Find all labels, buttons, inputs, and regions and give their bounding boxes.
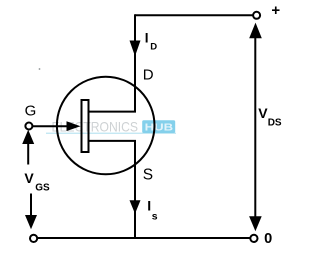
stray dot xyxy=(39,68,41,70)
svg-text:I: I xyxy=(147,198,151,214)
VDS up arrowhead xyxy=(249,23,262,39)
watermark HUB box xyxy=(142,120,175,133)
terminal bottom-left (open circle) xyxy=(30,235,37,242)
wire: source vertical xyxy=(134,141,136,238)
gate arrowhead xyxy=(67,121,81,131)
current arrow ID on drain wire xyxy=(130,41,141,57)
svg-text:s: s xyxy=(152,210,158,222)
transistor Q1 (JFET) circle xyxy=(57,77,155,175)
gate wire xyxy=(32,125,68,127)
svg-text:HUB: HUB xyxy=(145,121,174,133)
terminal + (open circle, top right) xyxy=(253,12,260,19)
terminal G (open circle) xyxy=(25,123,32,130)
svg-text:+: + xyxy=(271,2,280,19)
svg-text:G: G xyxy=(25,102,37,119)
VDS down arrowhead xyxy=(249,216,262,231)
svg-text:I: I xyxy=(145,30,149,45)
VGS lower arrow (down) xyxy=(30,194,32,217)
wire: bottom rail xyxy=(37,237,250,239)
svg-text:GS: GS xyxy=(35,183,50,194)
svg-text:D: D xyxy=(150,42,157,53)
transistor Q1 source lead xyxy=(89,140,136,142)
svg-text:D: D xyxy=(143,66,154,83)
terminal 0 (open circle, bottom right) xyxy=(250,235,257,242)
svg-text:V: V xyxy=(24,170,34,186)
wire: top rail from drain corner to + terminal xyxy=(135,14,253,16)
wire: drain vertical xyxy=(134,14,136,112)
svg-text:S: S xyxy=(143,167,153,184)
transistor Q1 drain lead xyxy=(89,111,136,113)
svg-text:DS: DS xyxy=(268,118,282,129)
transistor Q1 channel bar xyxy=(82,100,89,152)
watermark underline xyxy=(46,133,176,134)
VDS measurement line xyxy=(254,36,256,219)
current arrow Is on source wire xyxy=(130,200,141,214)
VGS upper arrow (up) xyxy=(27,142,29,165)
svg-text:0: 0 xyxy=(264,231,272,247)
